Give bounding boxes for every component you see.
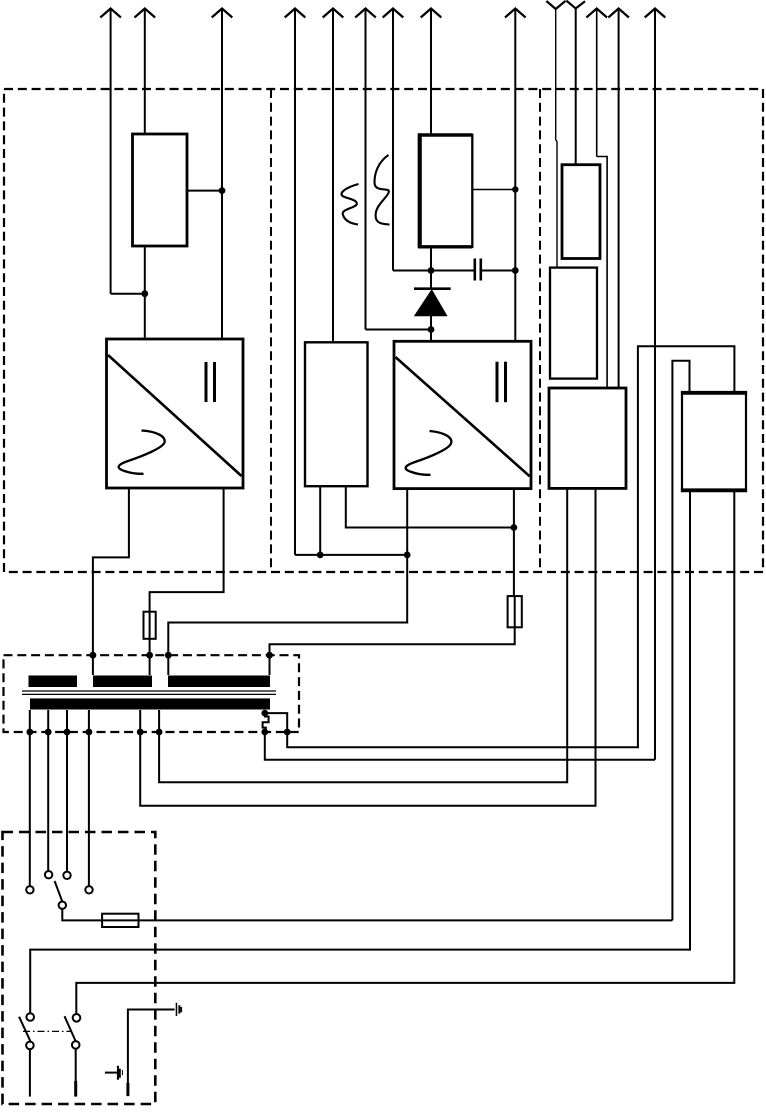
enclosure divider middle/right <box>539 89 541 572</box>
fork terminal Y2 <box>566 1 585 165</box>
switch S1 upper contact <box>26 1013 34 1021</box>
wire A1 right stub <box>187 190 222 192</box>
wire G1 bottom-right lead <box>150 488 224 612</box>
arrow P9 <box>505 9 526 342</box>
fuse F3 <box>102 914 138 927</box>
node J14 <box>261 710 268 717</box>
enclosure divider left/middle <box>270 89 272 572</box>
node J15e <box>137 729 144 736</box>
block U4 (right section second rectangle) <box>550 268 597 379</box>
connector K1 end stub thick <box>126 1083 129 1096</box>
node J8 <box>404 552 411 559</box>
node J3 <box>512 186 518 192</box>
coil squiggle W1 <box>341 184 358 225</box>
wire S1 down <box>29 1049 31 1096</box>
connector K1 symbol <box>176 1003 182 1016</box>
wire S2 end stub thick <box>74 1081 77 1097</box>
switchboard dashed enclosure bottom left <box>3 832 156 1104</box>
wire G2 bottom-left lead <box>406 489 408 555</box>
node J7 <box>317 552 324 559</box>
arrow P11 <box>608 9 629 389</box>
wire tap2 down to selector <box>47 732 49 871</box>
node J5 <box>512 267 519 274</box>
node J10 <box>90 652 97 659</box>
wire G2 bottom-right lead <box>513 489 515 528</box>
fuse F1 <box>144 612 156 656</box>
selector arm <box>55 881 63 901</box>
flexible link squiggle <box>263 713 269 732</box>
wire bus to capacitor row <box>393 270 474 272</box>
wire B1 right stub <box>472 189 515 191</box>
transformer T1 dashed enclosure <box>4 655 300 732</box>
node J13 <box>266 652 273 659</box>
transformer T1 primary winding bar b <box>93 676 152 688</box>
switch S2 upper contact <box>73 1014 81 1022</box>
wire L1 bottom-right lead <box>346 486 514 527</box>
wire tap3 down to selector <box>66 732 68 871</box>
capacitor C1 <box>475 259 481 281</box>
wire stub J13 to winding <box>269 655 271 675</box>
wire secondary tap 5 <box>139 710 141 732</box>
wire J9 down to fuse F2 <box>513 528 515 597</box>
wire D1 anode down <box>430 316 432 342</box>
selector contact 1 <box>26 886 33 893</box>
wire branch to J16 <box>265 713 287 732</box>
wire F2 to transformer right top <box>270 627 515 655</box>
wire tap4 down to selector <box>88 732 90 886</box>
wire G1 bottom-left lead <box>93 488 129 655</box>
node J15f <box>156 729 163 736</box>
wire stub J11 to winding <box>149 655 151 675</box>
block U5 (right section third rectangle) <box>549 388 626 488</box>
selector contact 2 <box>45 871 52 878</box>
fuse F2 <box>508 596 522 627</box>
wire U6 bottom lead A to switch S1 <box>30 490 690 1013</box>
node J15d <box>86 729 93 736</box>
transformer T1 core lines <box>22 691 276 694</box>
wire S2 down <box>75 1049 77 1081</box>
arrow P7 <box>383 9 404 271</box>
switch S1 lower contact <box>26 1042 34 1050</box>
node J11 <box>146 652 153 659</box>
wire secondary tap 3 <box>66 710 68 732</box>
wire stub J12 to winding <box>167 655 169 675</box>
coil squiggle W2 <box>375 155 390 225</box>
controller block A1 (left section top rectangle) <box>133 134 188 246</box>
switch S2 lower contact <box>72 1041 80 1049</box>
fork terminal Y1 <box>546 1 565 140</box>
node J9 <box>511 524 518 531</box>
wire secondary tap 6 <box>158 710 160 732</box>
transformer T1 primary winding bar c <box>168 676 270 688</box>
wire secondary tap 1 <box>29 710 31 732</box>
diode D1 <box>414 289 451 316</box>
arrow P10 <box>586 9 607 157</box>
wire P10 jog to U5 <box>597 157 607 389</box>
arrow P6 <box>355 9 376 330</box>
wire U6 top stub A to fuse line <box>672 361 689 921</box>
wire P12 to transformer right <box>265 732 655 760</box>
selector contact 3 <box>63 872 70 879</box>
connector K1 lead <box>128 1010 175 1084</box>
wire P1 elbow <box>111 293 145 295</box>
node J2 <box>141 290 148 297</box>
node J15c <box>64 729 71 736</box>
rectifier block U3 (right section small top rectangle) <box>562 165 600 259</box>
wire secondary tap 4 <box>88 710 90 732</box>
arrow P12 <box>645 9 666 760</box>
arrow P5 <box>323 9 344 343</box>
wire secondary tap 2 <box>47 710 49 732</box>
switch S1 blade <box>19 1017 30 1042</box>
wire Y1 to U4 <box>556 140 557 268</box>
connector K2 symbol <box>117 1066 123 1080</box>
enclosure dashed box top (converter cabinet) <box>4 89 763 572</box>
wire L1 bottom-left lead <box>319 486 321 555</box>
node J12 <box>165 652 172 659</box>
transformer T1 secondary winding bar <box>30 698 270 709</box>
wire bus P4 row <box>295 554 407 556</box>
wire tap1 down to selector <box>29 732 31 886</box>
node J15b <box>45 729 52 736</box>
node J15a <box>26 729 33 736</box>
transformer T1 primary winding bar a <box>29 676 78 688</box>
arrow P8 <box>421 9 442 135</box>
wire U6 top stub B to transformer right <box>287 346 734 747</box>
wire stub J10 to winding <box>92 655 94 675</box>
arrow P1 <box>100 9 121 294</box>
wire capacitor to node J5 <box>481 270 516 272</box>
wire P6 elbow to diode line <box>366 329 432 331</box>
wire selector common to fuse F3 <box>62 909 672 921</box>
battery block B1 <box>418 133 472 248</box>
mechanical link S1-S2 <box>23 1030 71 1032</box>
wire G2 left lead to transformer <box>168 555 407 655</box>
node J6 <box>428 326 435 333</box>
node J16 <box>284 729 291 736</box>
arrow P2 <box>135 9 156 135</box>
wire U6 bottom lead B to switch S2 <box>76 490 734 1014</box>
connector K2 lead <box>105 1072 117 1074</box>
wire B1 bottom lead <box>430 248 432 289</box>
wire U5 bottom-right lead to transformer <box>140 488 595 805</box>
node J1 <box>219 187 226 194</box>
selector contact 4 <box>85 886 92 893</box>
block U6 (right section fourth rectangle) <box>681 393 747 491</box>
wire A1 bottom to inverter G1 <box>144 246 146 339</box>
inverter G2 (middle DC/AC converter) <box>394 341 531 488</box>
choke block L1 (middle tall rectangle) <box>305 342 368 486</box>
wire U5 bottom-left lead to transformer <box>159 488 567 782</box>
selector common contact <box>59 902 66 909</box>
arrow P4 <box>285 9 306 555</box>
node J4 <box>428 267 435 274</box>
switch S2 blade <box>65 1016 77 1042</box>
inverter G1 (left DC/AC converter) <box>107 339 244 488</box>
arrow P3 <box>212 9 233 340</box>
node J15g <box>261 729 268 736</box>
